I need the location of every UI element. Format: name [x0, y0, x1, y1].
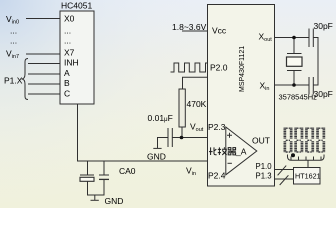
svg-text:P2.3: P2.3 [208, 122, 226, 132]
svg-text:GND: GND [105, 196, 124, 206]
svg-text:...: ... [10, 36, 17, 46]
svg-text:X7: X7 [64, 48, 75, 58]
svg-text:P2.4: P2.4 [208, 171, 226, 181]
svg-text:HC4051: HC4051 [61, 1, 92, 11]
svg-text:A: A [64, 68, 70, 78]
svg-text:X0: X0 [64, 14, 75, 24]
svg-text:MSP430F1121: MSP430F1121 [239, 46, 246, 92]
svg-text:1.8~3.6V: 1.8~3.6V [172, 22, 207, 32]
svg-text:...: ... [64, 26, 71, 36]
svg-text:P1.0: P1.0 [256, 162, 273, 171]
svg-text:470K: 470K [187, 99, 207, 109]
svg-text:CA0: CA0 [119, 166, 136, 176]
svg-text:30pF: 30pF [314, 21, 333, 31]
svg-text:...: ... [10, 26, 17, 36]
svg-text:P2.0: P2.0 [210, 63, 228, 73]
svg-text:OUT: OUT [252, 136, 270, 146]
svg-text:0.01μF: 0.01μF [148, 113, 173, 123]
svg-text:HT1621: HT1621 [295, 172, 321, 181]
svg-text:B: B [64, 78, 70, 88]
svg-text:P1.3: P1.3 [256, 172, 272, 181]
svg-text:...: ... [64, 36, 71, 46]
svg-text:Vcc: Vcc [212, 26, 227, 36]
svg-text:GND: GND [147, 151, 166, 161]
svg-text:INH: INH [64, 58, 79, 68]
svg-text:_A: _A [235, 147, 247, 157]
svg-text:3578545Hz: 3578545Hz [279, 93, 318, 102]
svg-text:C: C [64, 89, 70, 99]
svg-text:P1.X: P1.X [4, 76, 23, 86]
